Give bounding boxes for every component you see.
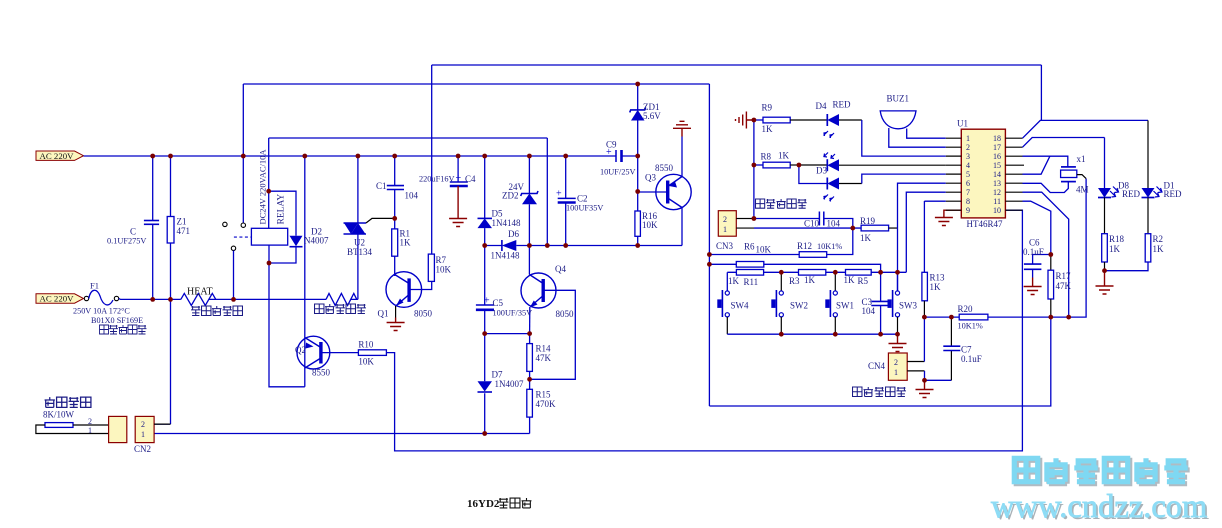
svg-text:10: 10 <box>993 206 1001 215</box>
wire: CN3 pin1 row y=228.05 <box>736 227 754 229</box>
svg-text:C1: C1 <box>376 181 387 191</box>
svg-text:2: 2 <box>723 215 727 224</box>
svg-text:2: 2 <box>966 143 970 152</box>
wire: R20 row y=317.1 <box>924 179 1086 318</box>
zener ZD2 24V <box>502 156 538 246</box>
svg-text:N4007: N4007 <box>304 236 329 246</box>
wire: ZD1 line down to R16 <box>637 156 639 246</box>
ground below C6 <box>1024 278 1042 295</box>
wire: CN2 pin2 stub to Z1 line <box>154 423 170 425</box>
diode D5 1N4148 <box>478 156 521 246</box>
wire: pin8 row to R13 <box>924 200 945 202</box>
svg-text:16YD2: 16YD2 <box>467 498 500 510</box>
svg-text:1: 1 <box>88 426 92 435</box>
resistor R9 1K <box>754 103 790 135</box>
dual LED D3 lower <box>799 165 839 202</box>
svg-text:3: 3 <box>966 152 970 161</box>
wire: pin18 to top line and D1 <box>1023 120 1149 138</box>
svg-text:R7: R7 <box>436 255 447 265</box>
wire: D4 to U1 pin3 <box>839 119 862 121</box>
svg-text:R19: R19 <box>860 216 876 226</box>
svg-text:4: 4 <box>966 161 970 170</box>
svg-text:10K: 10K <box>436 265 452 275</box>
resistor R3 1K <box>789 270 826 287</box>
wire: relay feed line y=138 <box>269 137 548 139</box>
resistor R18 1K <box>1102 198 1125 271</box>
LED D4 RED <box>816 100 852 139</box>
resistor: 锅身加热丝 heater <box>326 293 357 305</box>
capacitor C5 100UF/35V <box>476 246 532 334</box>
wire: pin7 row to key row <box>906 192 946 272</box>
svg-text:1K: 1K <box>762 124 774 134</box>
svg-text:1: 1 <box>723 225 727 234</box>
cement resistor 8K/10W <box>36 410 109 436</box>
svg-text:R15: R15 <box>536 390 552 400</box>
ground below CN4 pin1 <box>916 380 934 397</box>
svg-text:R13: R13 <box>930 273 946 283</box>
svg-text:1: 1 <box>894 368 898 377</box>
svg-text:Q4: Q4 <box>555 264 566 274</box>
triac U2 BT134 <box>344 156 395 299</box>
svg-text:Q3: Q3 <box>645 173 656 183</box>
svg-text:C6: C6 <box>1029 238 1040 248</box>
svg-text:F1: F1 <box>90 281 99 291</box>
svg-text:10K1%: 10K1% <box>817 242 842 251</box>
svg-text:R10: R10 <box>358 340 374 350</box>
svg-text:220uF16V: 220uF16V <box>419 175 455 184</box>
svg-text:18: 18 <box>993 134 1001 143</box>
resistor R11 1K <box>728 270 764 288</box>
node: AC 220V tag (bottom, N line) <box>36 294 84 304</box>
connector CN4 <box>868 353 907 380</box>
IC U1 HT46R47 <box>957 119 1005 230</box>
svg-text:471: 471 <box>177 226 191 236</box>
relay contact circle (NO, floating) <box>223 222 227 226</box>
capacitor C1 104 <box>376 156 419 218</box>
svg-text:10K: 10K <box>756 245 772 255</box>
wire: pin6 row to R19 / keys <box>898 183 946 228</box>
buzzer BUZ1 <box>880 94 916 129</box>
svg-text:C7: C7 <box>961 345 972 355</box>
svg-text:U2: U2 <box>354 238 365 248</box>
svg-text:SW4: SW4 <box>731 301 750 311</box>
transistor Q2 8550 <box>295 336 331 377</box>
svg-text:C5: C5 <box>493 298 504 308</box>
svg-text:47K: 47K <box>1056 281 1072 291</box>
ground below key bus <box>889 334 907 351</box>
resistor R12 10K1% <box>797 241 842 257</box>
switch SW4 <box>717 272 749 334</box>
svg-text:8K/10W: 8K/10W <box>43 410 75 420</box>
capacitor C2 100UF35V <box>556 156 603 246</box>
svg-text:D5: D5 <box>492 209 503 219</box>
relay armature contact circle <box>231 246 235 250</box>
svg-text:R8: R8 <box>761 152 772 162</box>
wire: second top line y=84 <box>243 83 709 85</box>
svg-text:10K: 10K <box>358 357 374 367</box>
capacitor C4 220uF16V <box>419 156 476 186</box>
wire: node row y=333.6 <box>485 333 530 335</box>
wire: Q3 base wire <box>638 191 668 193</box>
wire: pin16 to crystal top <box>1023 156 1068 167</box>
resistor R2 1K <box>1105 198 1165 271</box>
svg-text:1N4148: 1N4148 <box>491 251 520 261</box>
wire: crystal bottom to pin13 <box>1023 182 1069 193</box>
svg-text:8050: 8050 <box>414 309 433 319</box>
svg-text:1K: 1K <box>400 238 412 248</box>
svg-text:BUZ1: BUZ1 <box>887 94 910 104</box>
resistor R7 10K <box>428 254 451 281</box>
svg-text:0.1uF: 0.1uF <box>1023 247 1044 257</box>
wire: R8 to D3 node <box>790 164 799 166</box>
svg-text:ZD2: ZD2 <box>502 191 519 201</box>
svg-text:Q2: Q2 <box>295 345 306 355</box>
svg-text:11: 11 <box>993 197 1001 206</box>
label: 锅底传感器 <box>756 199 807 208</box>
svg-text:0.1uF: 0.1uF <box>961 354 982 364</box>
svg-text:1: 1 <box>141 430 145 439</box>
svg-text:8550: 8550 <box>655 163 674 173</box>
svg-text:15: 15 <box>993 161 1001 170</box>
diode D7 1N4007 <box>478 334 524 434</box>
wire: Q1 collector to R7 <box>409 281 432 289</box>
svg-text:104: 104 <box>405 191 419 201</box>
svg-text:470K: 470K <box>536 399 557 409</box>
svg-text:AC 220V: AC 220V <box>40 294 75 304</box>
wire: CN4 pin1 to ground node <box>907 370 924 372</box>
wire: CN4 pin2 to R13 line <box>907 361 924 363</box>
wire: vertical x=547.3 down to diode row <box>546 138 548 246</box>
svg-text:1N4148: 1N4148 <box>492 218 521 228</box>
svg-text:SW1: SW1 <box>836 301 854 311</box>
resistor R16 10K <box>635 211 658 236</box>
wire: Q4 emitter down <box>529 307 531 334</box>
svg-text:104: 104 <box>827 219 841 229</box>
svg-text:5.6V: 5.6V <box>643 111 661 121</box>
svg-text:D4: D4 <box>816 101 827 111</box>
diode D2 N4007 <box>290 227 329 247</box>
svg-text:8050: 8050 <box>556 309 575 319</box>
wire: buzzer lead to pin1 <box>907 129 946 139</box>
svg-text:1K: 1K <box>930 282 942 292</box>
power symbol above Q3 (inverted bars) <box>673 121 691 136</box>
wire: R10 right to U1 pin10 (long route) <box>386 210 1022 451</box>
wire: R6 row y=264.3 <box>709 264 880 272</box>
svg-text:100UF35V: 100UF35V <box>566 204 603 213</box>
svg-text:+: + <box>556 189 562 200</box>
wire: D3 upper to pin4 <box>839 164 946 166</box>
connector plug box (pairs with CN2) <box>109 416 127 442</box>
switch SW1 <box>825 272 854 334</box>
resistor R10 10K <box>358 340 386 367</box>
resistor R14 47K <box>527 334 552 380</box>
wire: R12 row y=254.5 <box>709 228 852 254</box>
svg-text:HEAT: HEAT <box>187 287 213 298</box>
relay actuation dashed link <box>234 236 251 238</box>
capacitor C7 0.1uF <box>943 317 981 380</box>
wire: top AC rail y=156 <box>84 155 638 157</box>
power symbol left of R9 <box>736 112 754 129</box>
varistor Z1 471 <box>167 156 190 299</box>
resistor R6 10K <box>736 242 771 268</box>
capacitor C3 104 <box>862 272 889 334</box>
svg-text:4M: 4M <box>1076 185 1089 195</box>
svg-text:12: 12 <box>993 188 1001 197</box>
capacitor C9 10UF/25V (in series with rail) <box>600 140 636 177</box>
fuse F1 <box>84 281 118 305</box>
svg-text:RED: RED <box>833 100 852 110</box>
svg-text:1N4007: 1N4007 <box>495 379 524 389</box>
U1 pin numbers right 18-10 <box>993 134 1001 215</box>
wire: bottom AC rail y=299.4 <box>119 298 358 301</box>
resistor: 底盘加热丝 heater (HEAT) <box>181 293 216 305</box>
wire: pin11 to C6/R17 node <box>1023 201 1051 254</box>
ground below C4 (red stem) <box>449 186 467 227</box>
capacitor C6 0.1uF <box>1023 238 1051 278</box>
svg-text:R20: R20 <box>958 304 974 314</box>
resistor R13 1K <box>922 201 945 317</box>
wire: vertical x=268.7 relay coil top <box>268 138 270 228</box>
U1 left pin stubs <box>946 138 962 210</box>
svg-text:RED: RED <box>1164 189 1183 199</box>
svg-text:2: 2 <box>141 420 145 429</box>
svg-text:R18: R18 <box>1109 234 1125 244</box>
svg-text:7: 7 <box>966 188 970 197</box>
wire: vertical x=431.7 from y=65 down to R7 <box>431 65 433 254</box>
svg-text:1K: 1K <box>844 275 856 285</box>
wire: vertical x=304.8 rail down through Q2 to loop <box>304 156 306 387</box>
svg-text:9: 9 <box>966 206 970 215</box>
resistor R20 10K1% <box>958 304 988 331</box>
label: board title 控制板 <box>499 498 532 508</box>
svg-text:CN2: CN2 <box>134 444 151 454</box>
svg-text:1K: 1K <box>804 275 816 285</box>
svg-text:SW3: SW3 <box>899 301 918 311</box>
svg-text:250V 10A 172°C: 250V 10A 172°C <box>73 307 130 316</box>
svg-text:C2: C2 <box>577 194 588 204</box>
svg-text:RELAY: RELAY <box>277 194 287 225</box>
svg-text:16: 16 <box>993 152 1001 161</box>
svg-text:10UF/25V: 10UF/25V <box>600 168 636 177</box>
switch SW2 <box>771 272 808 334</box>
wire: long vertical x=709.4 (y=84 down to y=406) <box>708 84 710 406</box>
svg-text:14: 14 <box>993 170 1001 179</box>
label: 锅盖传感器 <box>853 387 906 396</box>
svg-text:8: 8 <box>966 197 970 206</box>
wire: key row y=272.3 <box>727 271 906 273</box>
wire: armature to bottom rail <box>233 251 235 300</box>
svg-text:R3: R3 <box>789 276 800 286</box>
svg-text:1K: 1K <box>1109 244 1121 254</box>
LED D8 RED <box>1098 138 1141 200</box>
capacitor C 0.1UF275V <box>107 156 159 299</box>
wire: Q4 collector loop to R14/R15 node <box>530 290 576 379</box>
svg-text:R11: R11 <box>744 277 759 287</box>
connector CN3 <box>716 211 736 251</box>
svg-text:R2: R2 <box>1153 234 1164 244</box>
wire: vertical x=243.3 (rail to relay contact) <box>242 84 244 223</box>
wire: bottom loop y=406 <box>709 317 1050 406</box>
svg-text:17: 17 <box>993 143 1001 152</box>
svg-text:1K: 1K <box>728 276 740 286</box>
svg-text:SW2: SW2 <box>790 301 808 311</box>
svg-text:2: 2 <box>88 417 92 426</box>
wire: Q3 collector down to row <box>681 208 683 246</box>
svg-text:AC 220V: AC 220V <box>40 151 75 161</box>
svg-text:R6: R6 <box>744 242 755 252</box>
zener ZD1 5.6V <box>630 84 662 156</box>
svg-text:C10: C10 <box>804 219 820 229</box>
svg-text:U1: U1 <box>957 119 968 129</box>
ground at pin9 <box>935 210 961 225</box>
label: 锅身加热丝 <box>315 304 366 313</box>
transistor Q3 8550 <box>645 163 691 210</box>
wire: key bottom bus y=334.2 <box>727 333 897 335</box>
resistor R17 47K <box>1048 255 1072 318</box>
svg-text:1: 1 <box>966 134 970 143</box>
diode D2 N4007 branch wires <box>269 191 296 263</box>
svg-text:10K: 10K <box>642 220 658 230</box>
wire: Q1 emitter to ground <box>395 306 397 318</box>
node: AC 220V tag (top, L line) <box>36 151 84 161</box>
switch SW3 <box>888 272 918 334</box>
svg-text:13: 13 <box>993 179 1001 188</box>
svg-text:6: 6 <box>966 179 970 188</box>
svg-text:8550: 8550 <box>312 368 331 378</box>
wire: CN3 pin2 row y=218.5 <box>736 218 752 220</box>
crystal x1 4M <box>1061 154 1089 195</box>
connector CN2 <box>134 416 154 454</box>
wire: pin12 down to R20 row <box>1023 192 1069 317</box>
wire: D3 lower to pin5 <box>839 183 862 185</box>
svg-text:1K: 1K <box>860 233 872 243</box>
svg-text:R17: R17 <box>1056 271 1072 281</box>
relay contact circle (common, to rail) <box>241 223 245 227</box>
svg-text:D6: D6 <box>508 229 519 239</box>
svg-text:R12: R12 <box>797 241 812 251</box>
wire: Z1 line continues to CN2 pin2 <box>154 299 170 424</box>
wire: pin14 joins crystal line <box>1023 156 1050 174</box>
U1 pin numbers left 1-9 <box>966 134 970 215</box>
svg-text:BT134: BT134 <box>347 247 373 257</box>
svg-text:47K: 47K <box>536 353 552 363</box>
diode D6 1N4148 <box>491 229 520 261</box>
transistor Q4 8050 <box>521 264 574 319</box>
wire: sensor supply vertical x=753.9 <box>753 120 755 219</box>
resistor R5 1K <box>844 270 872 287</box>
svg-text:RED: RED <box>1122 189 1141 199</box>
U1 right pin stubs <box>1005 138 1024 210</box>
wire: buzzer lead to pin2 <box>889 128 946 147</box>
svg-text:1K: 1K <box>1153 244 1165 254</box>
svg-text:C4: C4 <box>465 174 476 184</box>
svg-text:1K: 1K <box>778 151 790 161</box>
svg-text:DC24V 220VAC/10A: DC24V 220VAC/10A <box>258 149 268 225</box>
resistor R1 1K <box>392 218 411 276</box>
svg-text:B01X0 SF169E: B01X0 SF169E <box>91 316 143 325</box>
svg-text:CN3: CN3 <box>716 241 734 251</box>
wire: top supply line y=65 <box>432 64 1042 66</box>
LED D1 RED <box>1142 120 1183 199</box>
wire: R9 to D4 <box>790 119 827 121</box>
svg-text:x1: x1 <box>1077 154 1086 164</box>
wire: Q4 base from diode row <box>528 246 530 275</box>
svg-text:Q1: Q1 <box>378 309 389 319</box>
relay coil box RELAY <box>251 228 287 245</box>
svg-text:+: + <box>606 147 612 158</box>
svg-text:5: 5 <box>966 170 970 179</box>
wire: crystal side tap to R20 row <box>1077 175 1086 179</box>
wire: CN2 pin1 long line y=433.5 <box>154 433 529 435</box>
wire: vertical x=1041.4 top line to pin18 node <box>1040 65 1042 120</box>
watermark: 电子电路图站 (shadow) <box>1016 460 1189 483</box>
label: 水泥电阻 <box>45 397 91 407</box>
resistor R19 1K <box>860 216 898 243</box>
svg-text:2: 2 <box>894 358 898 367</box>
ground below R18 <box>1096 271 1114 294</box>
svg-text:0.1UF275V: 0.1UF275V <box>107 237 146 246</box>
capacitor C10 104 <box>804 212 841 229</box>
svg-text:D3: D3 <box>816 166 827 176</box>
svg-text:10K1%: 10K1% <box>958 322 983 331</box>
svg-text:+: + <box>484 296 490 307</box>
svg-text:C: C <box>130 227 136 237</box>
svg-text:R5: R5 <box>858 276 869 286</box>
wire: diode row y=245.5 <box>485 245 682 247</box>
svg-text:D7: D7 <box>492 370 503 380</box>
wire: relay coil bottom down to Q2 collector loop <box>269 245 305 387</box>
svg-text:104: 104 <box>862 306 876 316</box>
label: 底盘加热丝 <box>191 306 242 315</box>
svg-text:100UF/35V: 100UF/35V <box>493 309 533 318</box>
dual LED D3 upper <box>816 153 839 176</box>
svg-text:R9: R9 <box>762 103 773 113</box>
wire: pin17 to D8 <box>1023 138 1105 148</box>
ground below Q1 <box>387 318 405 331</box>
watermark: 电子电路图站 (blue) <box>1014 458 1187 481</box>
label: 安装于锅底 <box>100 325 147 334</box>
svg-text:R14: R14 <box>536 344 552 354</box>
transistor Q1 8050 <box>378 272 433 319</box>
svg-text:Z1: Z1 <box>177 217 187 227</box>
svg-text:www.cndzz.com: www.cndzz.com <box>991 489 1207 525</box>
svg-text:HT46R47: HT46R47 <box>967 219 1004 229</box>
resistor R15 470K <box>527 379 556 433</box>
svg-text:CN4: CN4 <box>868 361 886 371</box>
resistor R8 1K <box>754 151 790 168</box>
svg-text:+: + <box>456 173 462 184</box>
wire: Q2 base to R10 <box>323 352 359 354</box>
wire: Q3 emitter up <box>681 137 683 177</box>
